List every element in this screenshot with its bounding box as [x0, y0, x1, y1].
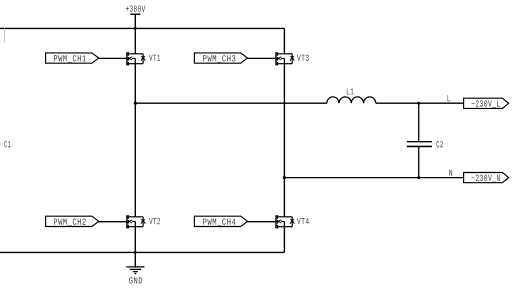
capacitor C2 plates: [407, 141, 432, 143]
label ~230V_N: [472, 175, 500, 182]
wire VT1 source to VT2 drain: [134, 64, 136, 217]
label +380V: [126, 6, 145, 12]
node junction bottom bus/GND: [134, 251, 137, 254]
capacitor C1 lead stub: [4, 28, 6, 42]
port PWM_CH1: [46, 53, 99, 63]
wire inductor to L output: [376, 102, 464, 104]
label L: [448, 95, 451, 101]
transistor VT1: [126, 52, 145, 65]
wire C2 bottom lead: [418, 147, 420, 178]
label C2: [436, 141, 442, 147]
wire N rail: [284, 177, 463, 179]
label N: [449, 170, 452, 176]
label GND: [129, 277, 142, 283]
label VT3: [297, 55, 309, 61]
node junction L/C2: [417, 102, 420, 105]
inductor L1: [327, 97, 376, 103]
wire C2 top lead: [418, 103, 420, 141]
port PWM_CH2: [46, 216, 99, 226]
label PWM_CH4: [203, 219, 235, 226]
port PWM_CH4: [194, 216, 247, 226]
port PWM_CH3: [194, 53, 247, 63]
port ~230V_L: [464, 98, 509, 108]
wire gate VT3: [247, 57, 275, 59]
label PWM_CH1: [54, 55, 86, 62]
wire VT3 source to VT4 drain: [283, 64, 285, 217]
wire VT4 source to bottom bus: [283, 227, 285, 253]
wire gate VT2: [98, 221, 126, 223]
transistor VT2: [126, 215, 145, 228]
wire VT2 source to bottom bus: [134, 227, 136, 267]
label VT2: [149, 218, 160, 224]
label VT4: [297, 218, 309, 224]
wire gate VT4: [247, 221, 275, 223]
label C1: [4, 141, 10, 147]
node junction phase B / N rail: [283, 176, 286, 179]
wire gate VT1: [98, 57, 126, 59]
label VT1: [149, 55, 160, 61]
wire +380V lead and VT1 drain: [134, 14, 136, 54]
transistor VT4: [275, 215, 294, 228]
power symbol +380V: [130, 13, 140, 15]
node junction +380V/top bus: [134, 27, 137, 30]
wire VT3 drain from top bus: [283, 28, 285, 53]
wire phase A to inductor: [135, 102, 326, 104]
wire bottom DC bus GND: [0, 251, 284, 253]
label PWM_CH2: [54, 219, 86, 226]
wire top DC bus +380V: [0, 27, 284, 29]
label ~230V_L: [472, 100, 500, 107]
transistor VT3: [275, 52, 294, 65]
node junction phase A: [134, 102, 137, 105]
label L1: [347, 88, 354, 94]
node junction N/C2: [417, 176, 420, 179]
port ~230V_N: [464, 173, 509, 183]
ground symbol: [126, 267, 144, 274]
label PWM_CH3: [203, 55, 235, 62]
